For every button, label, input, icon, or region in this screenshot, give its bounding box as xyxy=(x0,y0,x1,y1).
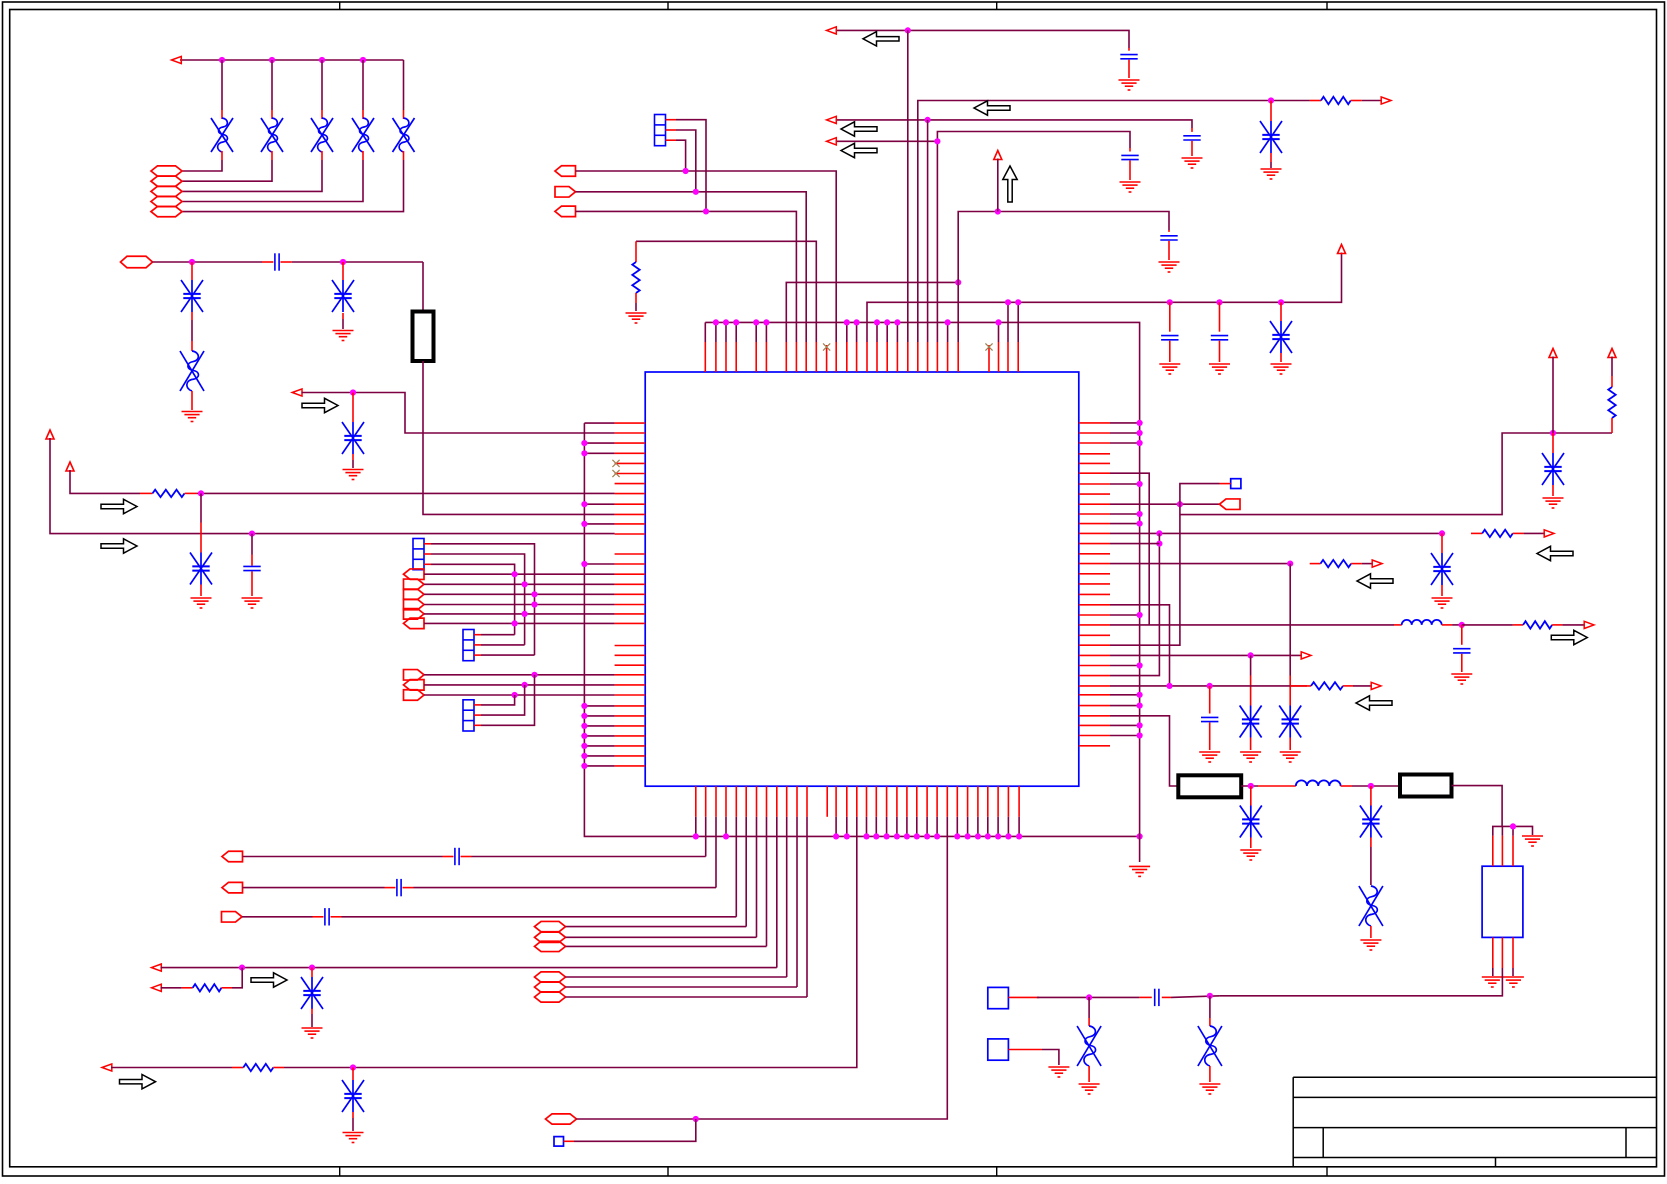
wire right pin y422 to bus xyxy=(1110,422,1140,424)
flow arrow net21 xyxy=(1537,546,1573,560)
port P30 xyxy=(1220,499,1241,510)
junction bus VDD x715 xyxy=(713,319,719,325)
wire bottom pin x716 down xyxy=(715,817,717,888)
pin lead D20 bottom xyxy=(1250,838,1252,849)
wire VCC2 a xyxy=(70,470,140,493)
port P20 xyxy=(535,921,566,931)
port P27 xyxy=(555,166,576,177)
pin lead C14 left xyxy=(1139,996,1151,998)
ground T1 bot1 xyxy=(1482,977,1503,987)
flow arrow net6 xyxy=(251,973,287,987)
junction net27/C13 xyxy=(1207,683,1213,689)
resistor R10 xyxy=(1311,682,1343,689)
port P12 xyxy=(404,609,425,620)
junction P29/J4-1 xyxy=(703,208,709,214)
pin lead C12 bottom xyxy=(1461,654,1463,672)
wire bus stub y523 xyxy=(584,523,614,525)
ground T1 bot2 xyxy=(1503,977,1524,987)
port P29 xyxy=(555,206,576,217)
wire D4 to port xyxy=(182,160,363,202)
junction bus left y725 xyxy=(581,723,587,729)
port P6 xyxy=(121,256,153,268)
pin lead D19 top2 xyxy=(1250,676,1252,706)
pin lead D18 top2 xyxy=(1289,676,1291,706)
junction net6/R2 xyxy=(239,965,245,971)
IC U1 bottom pin stubs xyxy=(696,786,1019,817)
junction bus VDD x726 xyxy=(723,319,729,325)
wire D9 gnd link xyxy=(352,460,354,468)
wire R2 up xyxy=(232,968,242,988)
wire D7 gnd link xyxy=(342,319,344,329)
power port VCC6 xyxy=(1608,349,1616,358)
wire net29 b xyxy=(1171,996,1220,998)
connector J2 xyxy=(463,630,474,661)
wire port P11 to IC xyxy=(424,604,615,606)
pin lead R3 right xyxy=(273,1067,284,1069)
power port VCC3 xyxy=(994,151,1002,160)
red open arrow net27 xyxy=(1371,682,1381,689)
wire J4-3 down xyxy=(676,140,686,171)
wire T1 out xyxy=(1220,968,1503,996)
border zone tick top 3 xyxy=(996,2,998,10)
pin lead C7 bottom xyxy=(1169,341,1171,362)
junction net20/D15 xyxy=(1550,430,1556,436)
junction bus left y504 xyxy=(581,501,587,507)
wire net16 xyxy=(937,132,1130,343)
pin lead C8 top xyxy=(1219,302,1221,331)
pin lead J2-2 xyxy=(474,644,481,646)
pin lead J2-1 xyxy=(474,634,481,636)
wire right pin y523 to bus xyxy=(1110,523,1140,525)
pin lead C7 top xyxy=(1169,302,1171,331)
port P22 xyxy=(535,941,566,951)
ground D11 xyxy=(302,1028,323,1038)
wire net23 xyxy=(1110,563,1290,565)
junction net12/C7 xyxy=(1167,299,1173,305)
suppressor D23 xyxy=(1077,1026,1101,1066)
pin lead D14 bottom xyxy=(1270,153,1272,162)
capacitor C7 xyxy=(1161,336,1178,340)
pin lead J3-3 xyxy=(474,724,481,726)
port P25 xyxy=(535,992,566,1002)
wire J1-2 col xyxy=(431,554,525,645)
wire net15 xyxy=(836,120,1193,128)
junction bus left y755 xyxy=(581,753,587,759)
red open arrow net17 xyxy=(827,138,837,145)
ground D8 xyxy=(182,412,203,422)
wire pin1018 up xyxy=(1017,302,1019,342)
pin lead R8 right xyxy=(1351,563,1362,565)
pin lead D7 top xyxy=(342,262,344,280)
wire bus stub y564 xyxy=(584,563,614,565)
pin lead D23 bottom xyxy=(1088,1066,1090,1082)
pin lead C3 left xyxy=(443,856,454,858)
pin lead R6 bottom xyxy=(1611,418,1613,433)
pin lead R2 right xyxy=(222,987,233,989)
ground C8 xyxy=(1209,364,1230,374)
pin lead R9 right xyxy=(1552,624,1562,626)
pin lead L2 right xyxy=(1341,785,1352,787)
junction net26/D19 xyxy=(1248,652,1254,658)
pin lead C6 bottom xyxy=(1168,241,1170,260)
wire net22 stub xyxy=(1110,543,1159,545)
ground C13 xyxy=(1199,752,1220,762)
power port VCC5 xyxy=(1549,349,1557,358)
wire P25 xyxy=(566,996,808,998)
junction net29/D24 xyxy=(1207,993,1213,999)
pin lead D9 bottom xyxy=(352,454,354,460)
junction bus VDD x947 xyxy=(945,319,951,325)
border zone tick top 2 xyxy=(667,2,669,10)
wire bottom pin x776 down xyxy=(776,817,778,968)
IC U1 right pin stubs xyxy=(1079,423,1110,746)
port P28 xyxy=(555,187,576,198)
fuse F1 xyxy=(413,312,434,362)
suppressor D7 xyxy=(332,280,354,312)
junction right bus y514 xyxy=(1137,511,1143,517)
junction net13 xyxy=(905,27,911,33)
pin lead D12 top xyxy=(352,1068,354,1081)
wire VCC5 down xyxy=(1552,357,1554,434)
suppressor D4 xyxy=(352,118,374,152)
capacitor C2 xyxy=(243,566,260,570)
wire right pin y705 to bus xyxy=(1110,705,1140,707)
ground D20 xyxy=(1240,850,1261,860)
wire R1 to IC xyxy=(197,492,615,494)
junction P27/J4-3 xyxy=(683,168,689,174)
junction net23/D18 xyxy=(1287,561,1293,567)
flow arrow net25 xyxy=(1551,630,1587,644)
pin lead R10 right xyxy=(1343,685,1353,687)
junction net17 xyxy=(934,138,940,144)
resistor R1 xyxy=(153,490,185,497)
pin lead T1 bot1 xyxy=(1492,937,1494,968)
pin lead D20 top xyxy=(1250,786,1252,806)
ground D7 xyxy=(333,331,354,341)
pin lead J4-2 xyxy=(666,129,677,131)
suppressor D9 xyxy=(342,422,364,454)
pin lead D10 top xyxy=(200,523,202,553)
suppressor D20 xyxy=(1240,806,1262,838)
junction net3/D9 xyxy=(350,389,356,395)
pin lead T1 top3 xyxy=(1512,836,1514,867)
pin lead D23 top xyxy=(1088,1018,1090,1026)
junction bottom bus x1019 xyxy=(1016,833,1022,839)
wire R4 gnd link xyxy=(635,303,637,311)
wire right pin y665 to bus xyxy=(1110,665,1140,667)
wire bus stub y755 xyxy=(584,755,614,757)
red open arrow net1 xyxy=(172,56,182,63)
junction P15/column xyxy=(522,682,528,688)
pin lead J4-1 xyxy=(666,119,677,121)
ground C7 xyxy=(1159,364,1180,374)
power port VCC1 xyxy=(46,430,54,439)
pin lead C5 right xyxy=(331,916,342,918)
pin lead C10 top xyxy=(1191,128,1193,132)
resistor R8 xyxy=(1321,560,1352,567)
wire P17 a xyxy=(243,856,443,858)
port P9 xyxy=(404,579,425,590)
wire dot-R9 xyxy=(1462,624,1513,626)
wire D10 link xyxy=(200,493,202,522)
test point M3 xyxy=(554,1137,564,1147)
wire net8 a xyxy=(111,1067,232,1069)
pin lead L1 right xyxy=(1442,624,1452,626)
pin lead R5 left xyxy=(1310,100,1321,102)
junction net12/C8 xyxy=(1216,299,1222,305)
port P21 xyxy=(535,932,566,942)
flow arrow VCC3 xyxy=(1003,166,1017,202)
wire P20 xyxy=(566,926,747,928)
pin lead J1-2 xyxy=(424,553,431,555)
red open arrow net15 xyxy=(827,116,837,123)
wire D6 to D8 xyxy=(191,320,193,341)
wire right pin y735 to bus xyxy=(1110,735,1140,737)
pin lead D9 top xyxy=(352,393,354,423)
pin lead R4 bottom xyxy=(635,293,637,303)
pin lead R7 left xyxy=(1471,532,1482,534)
pin lead R8 left xyxy=(1310,563,1321,565)
junction net15 xyxy=(925,117,931,123)
wire bottom pins to bus xyxy=(696,817,1019,837)
wire top pins to bus VDD xyxy=(705,322,998,342)
pin lead T1 bot3 xyxy=(1512,937,1514,968)
wire bus to D4 xyxy=(362,60,364,110)
suppressor D1 xyxy=(211,118,233,152)
junction bus VDD x846 xyxy=(844,319,850,325)
wire bus to D1 xyxy=(221,60,223,110)
wire C2 link xyxy=(251,534,253,555)
fuse F2 xyxy=(1178,775,1241,797)
pin lead J3-1 xyxy=(474,704,481,706)
wire P29 to IC xyxy=(576,211,797,342)
ground D12 xyxy=(343,1133,364,1143)
pin lead J4-3 xyxy=(666,139,677,141)
ground C2 xyxy=(242,598,263,608)
junction net2/D6 xyxy=(189,259,195,265)
fuse F3 xyxy=(1400,775,1452,797)
junction right bus y665 xyxy=(1137,662,1143,668)
wire pin1008 up xyxy=(1007,302,1009,342)
wire D24 link xyxy=(1209,996,1211,1018)
junction net27 a xyxy=(1166,683,1172,689)
wire net29 xyxy=(1037,996,1140,998)
pin lead T1 top1 xyxy=(1492,836,1494,867)
junction bus left y564 xyxy=(581,561,587,567)
junction bus VDD x736 xyxy=(733,319,739,325)
wire P24 xyxy=(566,986,798,988)
junction net29/D23 xyxy=(1086,994,1092,1000)
port P1 xyxy=(151,166,182,176)
junction P8/column xyxy=(511,571,517,577)
pin lead M4 xyxy=(1220,483,1231,485)
border zone tick bottom 2 xyxy=(667,1167,669,1177)
red open arrow net6 xyxy=(152,964,162,971)
wire net28 to F2 xyxy=(1110,716,1178,786)
capacitor C11 xyxy=(1121,155,1138,159)
wire bottom pin x807 down xyxy=(806,817,808,997)
suppressor D17 xyxy=(1431,553,1453,585)
junction bus VDD x887 xyxy=(884,319,890,325)
ground R4 xyxy=(626,313,647,323)
pin lead J1-1 xyxy=(424,543,431,545)
wire P27 to IC xyxy=(576,171,837,342)
suppressor D15 xyxy=(1542,453,1564,485)
no-connect X on left pin 2 xyxy=(612,470,619,477)
junction bottom bus x916 xyxy=(914,833,920,839)
wire R9 to arrow xyxy=(1562,624,1585,626)
power port VCC2 xyxy=(66,462,74,471)
junction bus left y453 xyxy=(581,450,587,456)
pin lead D13 bottom xyxy=(1280,353,1282,362)
wire J3-3 col xyxy=(481,675,535,726)
junction bus/TVS D4 xyxy=(360,57,366,63)
pin lead D3 top xyxy=(321,110,323,119)
wire bus GND left+bottom xyxy=(584,423,1139,836)
flow arrow net17 xyxy=(841,143,877,157)
module M1 xyxy=(988,987,1009,1008)
ground D19 xyxy=(1240,752,1261,762)
junction right bus y725 xyxy=(1137,722,1143,728)
wire bottom pin x756 down xyxy=(756,817,758,938)
capacitor C1 xyxy=(275,253,279,270)
wire bus stub y453 xyxy=(584,452,614,454)
wire net10 xyxy=(786,282,958,342)
transformer T1 body xyxy=(1482,866,1523,937)
pin lead R2 left xyxy=(182,987,193,989)
junction bus left y715 xyxy=(581,713,587,719)
wire right pin y725 to bus xyxy=(1110,724,1140,726)
junction bottom bus x726 xyxy=(723,833,729,839)
port P4 xyxy=(151,196,182,206)
pin lead C8 bottom xyxy=(1219,341,1221,362)
pin lead D11 top xyxy=(311,968,313,977)
ground C11 xyxy=(1120,182,1141,192)
wire net20 long xyxy=(1180,433,1612,515)
junction T1 top xyxy=(1510,823,1516,829)
no-connect X on top pin xyxy=(823,343,830,350)
IC U1 body xyxy=(645,372,1079,786)
junction bus VDD x998 xyxy=(995,319,1001,325)
junction P10/column xyxy=(531,591,537,597)
ground D9 xyxy=(343,470,364,480)
connector J1 xyxy=(413,539,424,570)
ground D13 xyxy=(1271,364,1292,374)
wire net18 xyxy=(1110,473,1149,625)
title block xyxy=(1293,1077,1656,1167)
junction net8/D12 xyxy=(350,1064,356,1070)
red open arrow net21 xyxy=(1544,530,1554,537)
pin lead D17 bottom xyxy=(1441,585,1443,596)
port P3 xyxy=(151,186,182,196)
wire right pin y433 to bus xyxy=(1110,432,1140,434)
port P24 xyxy=(535,982,566,992)
border zone tick bottom 3 xyxy=(996,1167,998,1177)
flow arrow net3 xyxy=(302,398,338,412)
junction bus left y745 xyxy=(581,743,587,749)
power port VCC4 xyxy=(1338,245,1346,254)
wire F2 to L2 xyxy=(1241,785,1258,787)
wire R10 to arrow xyxy=(1353,685,1372,687)
suppressor D12 xyxy=(342,1080,364,1112)
red open arrow net8 xyxy=(102,1064,112,1071)
junction bottom bus x886 xyxy=(884,833,890,839)
port P23 xyxy=(535,972,566,982)
ground D17 xyxy=(1432,598,1453,608)
pin lead M2 xyxy=(1008,1049,1042,1051)
wire bus net1 top xyxy=(180,59,404,61)
red open arrow net14 xyxy=(1381,97,1391,104)
wire bottom pin x766 down xyxy=(766,817,768,947)
wire net13 xyxy=(836,30,1130,48)
wire net2 a xyxy=(153,261,263,263)
junction right bus y735 xyxy=(1137,732,1143,738)
pin lead J2-3 xyxy=(474,654,481,656)
pin lead C9 bottom xyxy=(1128,60,1130,78)
junction bottom bus x846 xyxy=(844,833,850,839)
junction bus left y735 xyxy=(581,733,587,739)
port P13 xyxy=(404,618,425,629)
wire port P16 to IC xyxy=(424,694,615,696)
port P19 xyxy=(222,912,243,923)
border zone tick bottom 4 xyxy=(1326,1167,1328,1177)
flow arrow net13 b xyxy=(863,32,899,46)
wire T1 top3 link xyxy=(1512,826,1514,835)
wire port P12 to IC xyxy=(424,613,615,615)
pin lead D15 bottom xyxy=(1552,485,1554,496)
wire F1 to IC pin xyxy=(423,361,615,514)
wire D21 to D22 xyxy=(1370,847,1372,885)
capacitor C5 xyxy=(325,908,329,925)
pin lead D24 top xyxy=(1209,1018,1211,1026)
junction net25/C12 xyxy=(1459,622,1465,628)
capacitor C9 xyxy=(1120,55,1137,59)
border zone tick bottom 1 xyxy=(339,1167,341,1177)
resistor R3 xyxy=(243,1064,273,1071)
pin lead D22 bottom xyxy=(1370,926,1372,938)
ground D24 xyxy=(1199,1084,1220,1094)
pin lead C10 bottom xyxy=(1191,141,1193,156)
no-connect X on top pin 2 xyxy=(985,343,992,350)
connector J4 xyxy=(655,115,666,146)
wire P17 b xyxy=(472,856,706,858)
wire VCC6 down xyxy=(1611,357,1613,377)
pin lead D12 bottom xyxy=(352,1112,354,1118)
wire net2 b xyxy=(292,261,423,263)
junction bottom bus x937 xyxy=(934,833,940,839)
pin lead L2 left xyxy=(1258,785,1296,787)
wire bottom pin x786 down xyxy=(786,817,788,977)
suppressor D10 xyxy=(190,553,212,585)
ground M2 xyxy=(1048,1067,1069,1077)
capacitor C14 xyxy=(1155,989,1159,1006)
suppressor D24 xyxy=(1198,1026,1222,1066)
wire net6 xyxy=(161,967,777,969)
junction bus VDD x856 xyxy=(854,319,860,325)
pin lead C11 top xyxy=(1129,148,1131,152)
wire M4 column xyxy=(1110,484,1220,646)
pin lead J3-2 xyxy=(474,714,481,716)
wire T1 top2 link xyxy=(1501,826,1503,835)
pin lead D24 bottom xyxy=(1209,1066,1211,1082)
wire port P9 to IC xyxy=(424,583,615,585)
red open arrow net25 xyxy=(1584,621,1594,628)
pin lead M3 xyxy=(564,1140,575,1142)
junction bottom bus x977 xyxy=(975,833,981,839)
wire P18 b xyxy=(414,887,717,889)
capacitor C10 xyxy=(1183,136,1200,140)
pin lead M1 xyxy=(1008,996,1039,998)
